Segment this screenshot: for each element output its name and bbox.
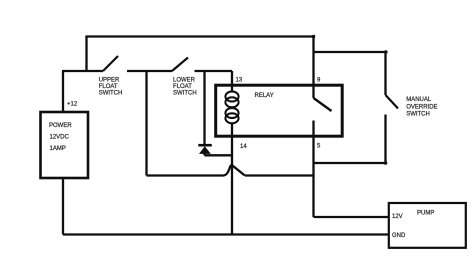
svg-text:UPPER: UPPER: [99, 78, 120, 84]
svg-text:12V: 12V: [392, 214, 403, 220]
svg-text:POWER: POWER: [49, 123, 72, 129]
svg-text:PUMP: PUMP: [417, 210, 434, 216]
svg-text:SWITCH: SWITCH: [406, 112, 430, 118]
svg-text:FLOAT: FLOAT: [99, 84, 118, 90]
svg-text:5: 5: [317, 144, 321, 150]
svg-text:1AMP: 1AMP: [50, 146, 66, 152]
svg-text:SWITCH: SWITCH: [99, 90, 123, 96]
svg-text:9: 9: [317, 77, 321, 83]
svg-text:LOWER: LOWER: [173, 78, 196, 84]
svg-text:MANUAL: MANUAL: [406, 97, 432, 103]
svg-text:+12: +12: [67, 102, 78, 108]
svg-text:OVERRIDE: OVERRIDE: [406, 104, 437, 110]
svg-text:RELAY: RELAY: [255, 93, 274, 99]
svg-text:14: 14: [240, 144, 247, 150]
svg-text:FLOAT: FLOAT: [173, 84, 192, 90]
svg-text:13: 13: [236, 77, 243, 83]
svg-text:SWITCH: SWITCH: [173, 90, 197, 96]
svg-text:GND: GND: [392, 233, 406, 239]
svg-text:12VDC: 12VDC: [50, 134, 70, 140]
